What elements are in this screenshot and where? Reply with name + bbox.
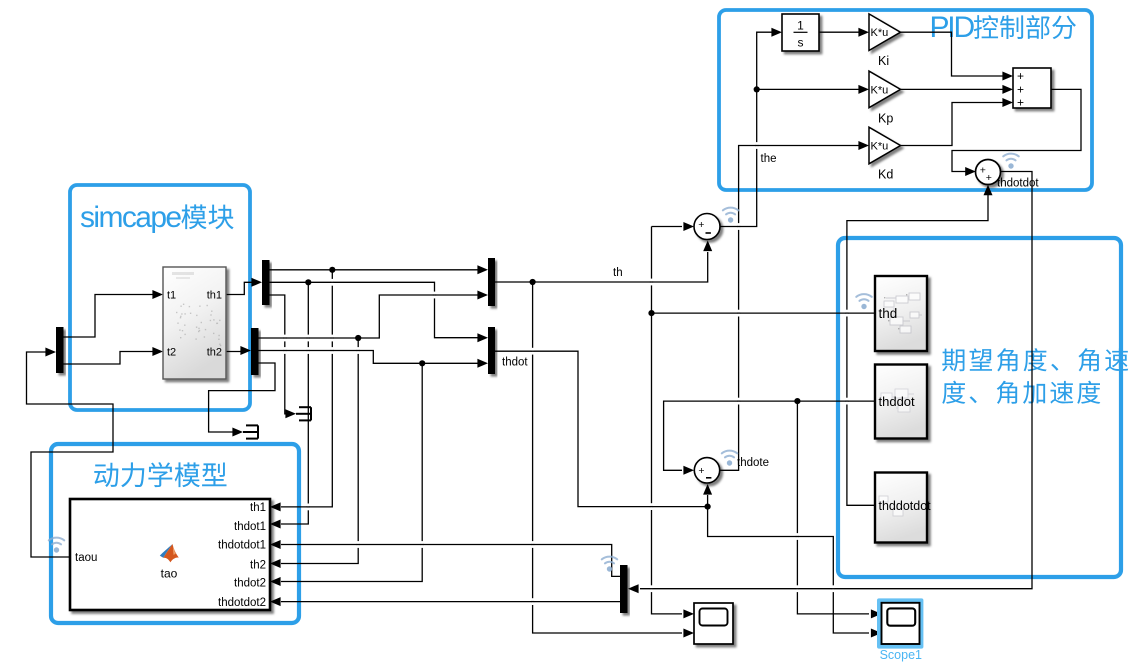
sum block (+++ rectangle) [1013, 68, 1051, 108]
svg-text:+: + [1017, 82, 1024, 96]
wireless logging badge near thd [856, 294, 871, 301]
svg-text:thdotdot: thdotdot [997, 178, 1039, 190]
demux bar2 [251, 328, 259, 375]
title: PID控制部分 [930, 11, 1076, 44]
area box: PID控制部分 [719, 10, 1092, 190]
demux mux3 [620, 565, 628, 613]
gain block Kd (K*u) [869, 127, 901, 164]
svg-text:thd: thd [879, 306, 898, 321]
svg-text:th2: th2 [207, 347, 222, 359]
svg-text:taou: taou [75, 552, 97, 564]
title: simcape模块 [80, 201, 234, 234]
svg-text:tao: tao [161, 567, 178, 581]
wire: taou feedback to demux [27, 352, 114, 557]
sum junction circle sum3 (thdotdot) [976, 160, 1001, 185]
wire: bar2 out2 (thdot2) to muxB in2, branch down to dyn thdot2 [258, 351, 478, 364]
wire: sum1 output up to PID (integrator + Kp) [721, 32, 775, 226]
wire: bar2 out1 (th2) to muxA in2, branch down to dyn th2 [258, 295, 478, 338]
title: 期望角度、角速度、角加速度 (two lines) [942, 348, 1128, 404]
svg-text:thdote: thdote [737, 457, 769, 469]
wire: demux out1 to t1 [63, 295, 153, 338]
wire: mux3 out1 to dyn thdotdot1 [281, 545, 620, 577]
Scope1 block (selected) [877, 598, 923, 648]
wire: Kd out to sum block in3 [900, 103, 1005, 146]
svg-text:Scope1: Scope1 [880, 648, 922, 662]
wire: sum2 out (the) up to Kd gain [720, 146, 861, 471]
svg-text:th1: th1 [207, 290, 222, 302]
wire: Kp out to sum block in2 [900, 88, 1005, 90]
svg-text:thdotdot1: thdotdot1 [218, 540, 266, 552]
integrator block 1/s [782, 14, 819, 51]
svg-text:Kd: Kd [878, 168, 893, 182]
svg-text:+: + [1017, 69, 1024, 83]
wire crossing hops [283, 142, 848, 605]
wire: thddotdot block to sum3 second plus input [847, 195, 988, 505]
wire: demux out2 to t2 [63, 352, 153, 365]
wire: thd block to sum1 plus input and Scope in1 [652, 312, 876, 314]
svg-text:thdot: thdot [502, 357, 528, 369]
wire: muxB out (thdot) to sum2 minus input and Scope1 in2 [494, 351, 869, 633]
wire: thddot block to sum2 plus input, branch to Scope1 in1 [664, 401, 875, 470]
svg-text:the: the [761, 153, 777, 165]
desired-trajectory source block thddotdot [875, 473, 927, 543]
svg-text:+: + [698, 219, 704, 231]
svg-text:th2: th2 [250, 559, 266, 571]
wire: Ki out to sum block in1 [900, 32, 1005, 76]
wireless logging badge near taou [49, 538, 64, 545]
svg-text:+: + [698, 465, 704, 477]
wire: muxA out (th) to sum1 minus input, branch down to Scope in2 [494, 252, 708, 282]
desired-trajectory source block thd [875, 276, 927, 351]
svg-text:s: s [798, 36, 804, 50]
svg-text:K*u: K*u [871, 141, 889, 153]
wireless logging badge near mux3 [602, 557, 617, 564]
svg-text:Ki: Ki [878, 54, 889, 68]
svg-text:thdot1: thdot1 [234, 521, 266, 533]
demux bar1 [262, 260, 270, 305]
svg-text:+: + [1017, 95, 1024, 109]
Scope block [694, 603, 733, 644]
faint thumbnail inside thd block [884, 293, 922, 333]
desired-trajectory source block thddot [875, 365, 927, 439]
dynamics MATLAB-function block (tao) [70, 499, 270, 610]
svg-text:thdotdot2: thdotdot2 [218, 597, 266, 609]
svg-text:th: th [613, 267, 623, 279]
area box: 期望角度、角速度、角加速度 [838, 238, 1121, 577]
svg-text:K*u: K*u [871, 27, 889, 39]
area box: simcape模块 [70, 185, 250, 410]
wire: bar1 out2 (thdot1) to muxB in1, branch down to dyn thdot1 [269, 282, 478, 337]
faint thumbnail inside thddot block [881, 389, 914, 412]
sum junction circle sum2 (thdote) [694, 458, 719, 483]
svg-text:thddot: thddot [879, 394, 916, 409]
svg-text:t1: t1 [167, 290, 176, 302]
wire: integrator out to Ki gain [819, 31, 861, 33]
mux B [488, 327, 495, 374]
gain block Kp (K*u) [869, 71, 901, 108]
wire: sum3 out (thdotdot) down and left into mux3 [640, 172, 1032, 589]
wire: th1 to demux bar1 [226, 282, 252, 294]
title: 动力学模型 [94, 462, 226, 487]
MATLAB logo [160, 544, 179, 562]
faint thumbnail inside thddotdot block [879, 496, 903, 516]
svg-text:Kp: Kp [878, 111, 893, 125]
wire: sum block out loops to sum3 [952, 89, 1081, 171]
wireless logging badge near sum1 [723, 208, 738, 215]
svg-text:K*u: K*u [871, 84, 889, 96]
svg-text:+: + [986, 172, 992, 184]
wireless logging badge near sum3 [1003, 154, 1018, 161]
svg-text:th1: th1 [250, 502, 266, 514]
svg-text:thddotdot: thddotdot [879, 499, 932, 513]
simscape subsystem block [163, 267, 226, 379]
wire: mux3 out2 to dyn thdotdot2 [281, 601, 620, 603]
svg-text:t2: t2 [167, 347, 176, 359]
wireless logging badge near sum2 [722, 451, 737, 458]
area box: 动力学模型 [51, 444, 299, 623]
mux A [488, 258, 495, 306]
wire: bar1 out3 to terminator1 [269, 295, 288, 414]
demux bar0 [56, 327, 64, 373]
terminator T1 [296, 407, 311, 420]
wire: bar2 out3 to terminator2 [209, 363, 275, 432]
wire: th2 to demux bar2 [226, 351, 241, 352]
sum junction circle sum1 [694, 214, 720, 240]
terminator T2 [243, 425, 258, 438]
wire: bar1 out1 (th1) to muxA in1, branch down to dyn th1 [269, 269, 478, 271]
gain block Ki (K*u) [869, 14, 901, 51]
svg-text:1: 1 [797, 19, 804, 33]
svg-text:simcape: simcape [80, 201, 181, 234]
svg-text:thdot2: thdot2 [234, 578, 266, 590]
